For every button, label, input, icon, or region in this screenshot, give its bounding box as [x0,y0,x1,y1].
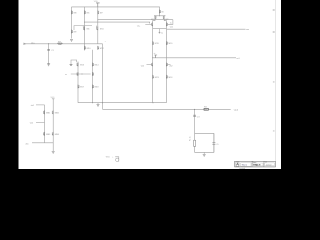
wire L3 output drop [102,44,104,110]
wire W3 [167,28,246,30]
wire RC box [195,133,214,152]
transistor M4 [166,22,167,26]
transistor M17 [78,85,79,89]
transistor M23 [153,75,154,79]
wire gate staple [74,26,92,30]
wire bottom rail [78,102,166,104]
gate loop wire [71,60,77,64]
transistor M24 [166,75,167,79]
title block [235,161,276,170]
transistor M9 [72,30,73,34]
svg-text:vc: vc [65,74,67,76]
svg-text:1u: 1u [170,22,172,24]
ground [97,103,99,105]
node tail [159,14,160,17]
transistor M22 [166,63,167,67]
gate stub vinm [145,23,151,25]
transistor IB tail [160,10,161,14]
transistor M19 [153,41,154,45]
wire W2 [85,22,150,23]
wire gate row [71,73,91,75]
ground [70,40,73,42]
transistor M8 [72,10,73,14]
transistor M18 [93,85,94,89]
wire bias left column [44,105,46,143]
transistor MB3 [44,132,45,136]
wire column A [71,7,73,39]
transistor M5 [85,10,86,14]
wire gnd stub [203,152,205,154]
transistor M1 [155,15,156,19]
transistor M6 [84,26,85,30]
wire bias stub 1 [36,104,45,106]
wire shunt [48,44,50,64]
transistor M12 [98,46,99,50]
transistor M13 [77,63,78,67]
transistor M7 [98,10,99,14]
wire cross couple box [168,20,173,25]
transistor M2 [163,15,164,19]
transistor M11 [97,26,98,30]
transistor M21 [152,63,153,67]
svg-text:CO: CO [197,116,200,118]
transistor MB4 [52,132,53,136]
page background [0,0,300,169]
wire mid line [153,57,236,59]
wire column B [84,7,86,51]
wire bias stub 2 [36,121,45,123]
VDD power symbol [94,1,100,7]
transistor MB2 [52,110,53,114]
ground [47,64,50,66]
svg-text:TINA-TI: TINA-TI [253,164,261,167]
svg-text:von: von [246,29,249,31]
node junction [48,43,49,44]
ground [52,151,55,153]
transistor M16 [93,72,94,76]
frame tick 2 [273,32,275,33]
port vin+ [24,43,26,45]
resistor RL [194,140,196,146]
svg-text:Macro: Macro [242,164,247,167]
transistor M20 [166,41,167,45]
svg-text:vbn: vbn [25,144,28,146]
svg-text:RL 1k: RL 1k [190,136,192,141]
svg-text:created: created [239,167,245,169]
wire column C [97,7,99,44]
transistor M14 [93,63,94,67]
wire W1 [98,19,173,21]
wire drain jogs [153,16,155,103]
wire vin+ line [24,43,103,45]
capacitor CO [193,115,196,116]
svg-text:+: + [105,41,106,43]
wire bias stub 3 [32,142,53,144]
wire tail node [154,15,166,17]
svg-text:VG1: VG1 [106,156,110,158]
transistor M10 [85,46,86,50]
capacitor C1 [47,49,50,50]
frame right border [275,0,277,161]
svg-text:1.0.0.0: 1.0.0.0 [266,164,272,166]
svg-text:vout: vout [234,108,239,111]
transistor M3 [152,22,153,26]
svg-text:vin-: vin- [137,26,141,28]
probe T [154,55,157,58]
wire L1 column [77,62,79,103]
svg-text:CL: CL [216,144,218,146]
wire VDD top rail [72,7,160,16]
frame tick 1 [273,10,275,11]
transistor MB1 [44,110,45,114]
wire L2 column [92,50,94,103]
wire output line [103,108,231,110]
svg-text:1u: 1u [161,33,163,35]
node [194,109,195,110]
transistor M15 [77,72,78,76]
capacitor CL [212,143,215,145]
wire comp drop [194,109,196,133]
wire source join [153,28,167,30]
